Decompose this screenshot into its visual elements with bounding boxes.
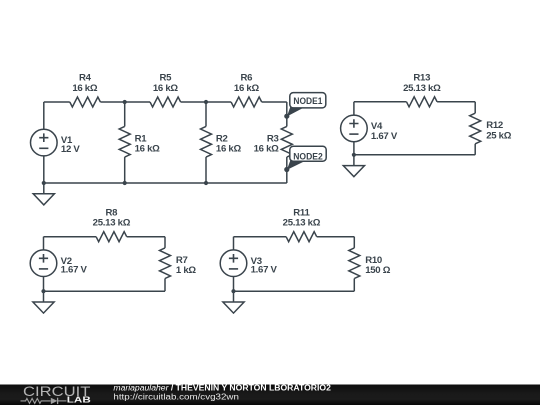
wire: top rail R11 to corner [317, 236, 355, 238]
resistor R11 [286, 232, 317, 242]
resistor R2 [201, 126, 212, 157]
svg-text:1.67 V: 1.67 V [251, 264, 278, 275]
resistor R10 [349, 248, 360, 279]
svg-text:NODE1: NODE1 [293, 96, 323, 107]
voltage source V1 [31, 129, 58, 156]
value 25.13 k&#937; (R13) [403, 83, 441, 94]
value 16 k&#937; (R3) [254, 144, 280, 155]
label R7 [176, 255, 188, 266]
label V3 [251, 256, 262, 267]
svg-text:25 kΩ: 25 kΩ [486, 130, 512, 141]
CircuitLab logo text LAB [67, 394, 91, 404]
node dot NODE2 [284, 167, 289, 172]
wire: R2 top lead [205, 102, 207, 126]
node junction dot at R1 top [123, 100, 127, 104]
value 16 k&#937; (R1) [135, 144, 161, 155]
junction dot at V3 ground [231, 289, 235, 293]
wire: V4 bottom to bottom rail [353, 142, 355, 155]
resistor R8 [96, 232, 127, 242]
svg-text:16 kΩ: 16 kΩ [135, 144, 161, 155]
footer title line: author and circuit name [113, 384, 331, 393]
value 16 k&#937; (R6) [234, 83, 260, 94]
value 1 k&#937; (R7) [176, 265, 196, 276]
wire: top rail V4 to R13 [354, 101, 407, 103]
resistor R5 [150, 97, 181, 107]
node dot NODE1 [284, 114, 289, 119]
wire: V3 top to top rail [233, 237, 235, 250]
voltage source V3 [220, 250, 247, 277]
label R4 [79, 73, 92, 84]
ground (circuit 1) [33, 183, 54, 205]
node NODE2 flag [287, 146, 326, 170]
value 12 V (V1) [61, 144, 80, 155]
svg-text:12 V: 12 V [61, 144, 80, 155]
resistor R7 [160, 248, 171, 279]
wire: V3 bottom to bottom rail [233, 277, 235, 292]
label R8 [106, 208, 119, 219]
label R3 [267, 133, 279, 144]
ground (circuit 3) [223, 291, 244, 313]
wire: R12 bottom lead [474, 144, 476, 155]
label R5 [159, 73, 172, 84]
junction dot bottom rail at R1 [123, 181, 127, 185]
resistor R6 [231, 97, 262, 107]
ground (circuit 2) [33, 291, 54, 313]
svg-text:150 Ω: 150 Ω [365, 265, 391, 276]
resistor R4 [70, 97, 101, 107]
label R10 [365, 255, 382, 266]
wire: V4 top to top rail [353, 102, 355, 115]
label V2 [61, 256, 72, 267]
footer black bar [0, 385, 540, 405]
value 25.13 k&#937; (R8) [93, 218, 131, 229]
wire: R7 bottom lead [164, 279, 166, 292]
svg-text:mariapaulaher / THEVENIN Y NOR: mariapaulaher / THEVENIN Y NORTON LBORAT… [113, 384, 331, 393]
wire: circuit4 bottom rail [354, 154, 475, 156]
value 25 k&#937; (R12) [486, 130, 512, 141]
svg-text:25.13 kΩ: 25.13 kΩ [283, 218, 321, 229]
svg-text:LAB: LAB [67, 394, 91, 404]
value 16 k&#937; (R4) [72, 83, 98, 94]
svg-text:16 kΩ: 16 kΩ [234, 83, 260, 94]
label R1 [135, 133, 148, 144]
junction dot bottom rail at V1 [42, 181, 46, 185]
junction dot bottom rail at R2 [204, 181, 208, 185]
svg-text:16 kΩ: 16 kΩ [254, 144, 280, 155]
wire: right vertical down to R3 [286, 102, 288, 126]
CircuitLab logo text CIRCUIT [23, 384, 91, 400]
ground (circuit 4) [343, 155, 364, 177]
svg-text:1.67 V: 1.67 V [371, 131, 398, 142]
wire: top rail R6 to corner [262, 101, 287, 103]
wire: top rail R8 to corner [127, 236, 165, 238]
wire: circuit1 top rail segment V1-R4 [44, 101, 70, 103]
svg-text:16 kΩ: 16 kΩ [216, 144, 242, 155]
wire: R10 top lead [353, 237, 355, 248]
wire: V2 top to top rail [43, 237, 45, 250]
node junction dot at R2 top [204, 100, 208, 104]
wire: R7 top lead [164, 237, 166, 248]
wire: top rail R4 to R5 [100, 101, 150, 103]
label R6 [241, 73, 253, 84]
wire: R2 bottom lead [205, 157, 207, 183]
value 16 k&#937; (R2) [216, 144, 242, 155]
wire: R1 bottom lead [124, 157, 126, 183]
svg-text:16 kΩ: 16 kΩ [72, 83, 98, 94]
junction dot at V4 ground [352, 153, 356, 157]
resistor R3 [281, 126, 292, 157]
voltage source V4 [341, 115, 368, 142]
label R12 [486, 120, 503, 131]
value 1.67 V (V3) [251, 264, 278, 275]
label R13 [413, 73, 430, 84]
wire: circuit2 bottom rail [44, 290, 166, 292]
value 1.67 V (V4) [371, 131, 398, 142]
svg-text:16 kΩ: 16 kΩ [153, 83, 179, 94]
svg-text:1 kΩ: 1 kΩ [176, 265, 196, 276]
resistor R13 [407, 97, 438, 107]
CircuitLab logo wire with resistor and diode [21, 398, 67, 404]
value 16 k&#937; (R5) [153, 83, 179, 94]
wire: V1 bottom to bottom rail [43, 156, 45, 183]
wire: top rail R5 to R6 [181, 101, 231, 103]
value 150 &#937; (R10) [365, 265, 391, 276]
junction dot at V2 ground [41, 289, 45, 293]
wire: circuit1 bottom rail [44, 182, 287, 184]
node NODE1 flag [287, 93, 326, 117]
wire: R1 top lead [124, 102, 126, 126]
label V1 [61, 135, 73, 146]
wire: top rail V2 to R8 [44, 236, 97, 238]
wire: circuit3 bottom rail [234, 290, 355, 292]
label R11 [293, 208, 310, 219]
voltage source V2 [30, 250, 57, 277]
svg-text:http://circuitlab.com/cvg32wn: http://circuitlab.com/cvg32wn [113, 393, 238, 402]
svg-text:25.13 kΩ: 25.13 kΩ [403, 83, 441, 94]
wire: R10 bottom lead [353, 279, 355, 292]
wire: R12 top lead [474, 102, 476, 113]
label R2 [216, 133, 228, 144]
resistor R12 [470, 113, 481, 144]
svg-text:25.13 kΩ: 25.13 kΩ [93, 218, 131, 229]
value 1.67 V (V2) [61, 264, 88, 275]
wire: R3 bottom lead [286, 157, 288, 183]
wire: top rail V3 to R11 [234, 236, 287, 238]
resistor R1 [119, 126, 130, 157]
svg-text:1.67 V: 1.67 V [61, 264, 88, 275]
label V4 [371, 121, 383, 132]
wire: top rail R13 to corner [437, 101, 475, 103]
value 25.13 k&#937; (R11) [283, 218, 321, 229]
wire: V2 bottom to bottom rail [43, 277, 45, 292]
wire: circuit1 left vertical top (V1 to top rail) [43, 102, 45, 129]
svg-text:NODE2: NODE2 [293, 152, 323, 163]
footer url line [113, 393, 238, 402]
